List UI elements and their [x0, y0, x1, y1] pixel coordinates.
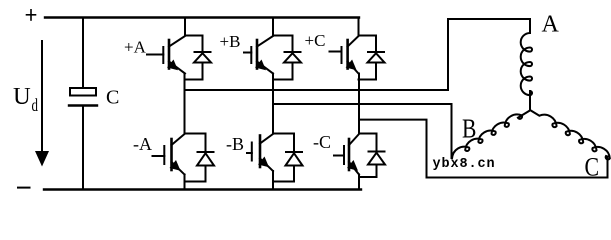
- svg-text:+C: +C: [305, 31, 326, 50]
- node - (negative DC terminal): [18, 187, 30, 189]
- svg-text:C: C: [585, 154, 600, 182]
- capacitor C bottom lead wire: [82, 106, 84, 190]
- diode VD1 (freewheel of +A): [185, 36, 211, 80]
- transistor V5 (+C upper IGBT): [330, 18, 359, 74]
- wire phase C output to winding C: [359, 120, 608, 178]
- svg-text:U: U: [13, 83, 31, 110]
- transistor V3 (+B upper IGBT): [244, 18, 273, 74]
- transistor V4 (-A lower IGBT): [153, 134, 185, 190]
- svg-text:B: B: [462, 114, 476, 144]
- diode VD4 (freewheel of -A): [185, 134, 215, 182]
- svg-text:C: C: [106, 87, 119, 109]
- capacitor C: [69, 88, 97, 106]
- svg-text:-C: -C: [313, 132, 331, 152]
- svg-text:-B: -B: [226, 134, 244, 154]
- inductor winding A: [521, 33, 532, 95]
- wire phase A output to winding A: [185, 19, 531, 90]
- svg-text:+A: +A: [124, 37, 147, 56]
- inductor winding B: [452, 111, 529, 158]
- wire phase B output to winding B: [273, 104, 452, 158]
- wire phase B leg: [272, 74, 274, 134]
- wire phase C leg: [358, 74, 360, 134]
- svg-text:-A: -A: [133, 134, 152, 154]
- transistor V6 (-B lower IGBT): [247, 134, 273, 190]
- diode VD5 (freewheel of +C): [359, 36, 385, 80]
- node Ud voltage arrow: [35, 41, 49, 167]
- wire top DC rail: [45, 16, 359, 18]
- diode VD2 (freewheel of -C): [359, 134, 385, 178]
- svg-text:ybx8.cn: ybx8.cn: [433, 157, 496, 172]
- svg-text:d: d: [32, 96, 39, 116]
- inductor winding C: [530, 110, 610, 159]
- transistor V2 (-C lower IGBT): [334, 134, 359, 190]
- capacitor C1 top lead wire: [82, 18, 84, 89]
- diode VD3 (freewheel of +B): [273, 36, 301, 80]
- wire phase A leg: [184, 74, 186, 134]
- svg-text:A: A: [542, 12, 560, 38]
- diode VD6 (freewheel of -B): [273, 134, 303, 182]
- wire winding A to star point: [529, 91, 531, 110]
- transistor V1 (+A upper IGBT): [147, 18, 185, 74]
- wire bottom DC rail: [44, 188, 361, 190]
- node + (positive DC terminal): [27, 10, 36, 20]
- svg-text:+B: +B: [220, 32, 241, 51]
